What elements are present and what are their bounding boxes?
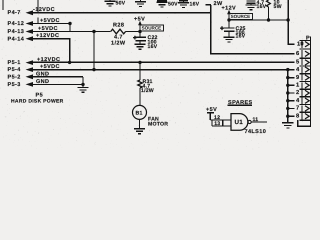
- wire stub to Vb with 2W label: [206, 4, 211, 6]
- svg-text:+5VDC: +5VDC: [38, 26, 58, 32]
- svg-text:1/2W: 1/2W: [111, 41, 126, 47]
- ground top G1: [105, 0, 116, 6]
- wire GND from P5-2: [26, 74, 84, 79]
- wire +12VDC rail P5-1 to pin 5: [26, 60, 295, 65]
- pin 8 row10: [296, 112, 309, 119]
- pin 4 row8: [296, 98, 309, 104]
- wire spares input 13: [212, 120, 231, 126]
- svg-text:+12V: +12V: [222, 5, 237, 11]
- svg-text:7: 7: [296, 106, 299, 112]
- wire stub top-left edge: [2, 0, 4, 10]
- junction dot fan branch on +12 rail: [138, 61, 141, 64]
- svg-text:+12VDC: +12VDC: [37, 57, 60, 63]
- pin 7 row9: [296, 105, 309, 111]
- svg-text:P4-14: P4-14: [8, 36, 25, 42]
- svg-text:P5-2: P5-2: [8, 74, 21, 80]
- wire +12VDC line from P4-14, corner down to line5: [26, 36, 72, 64]
- svg-text:74LS10: 74LS10: [245, 129, 267, 135]
- svg-text:50V: 50V: [168, 2, 178, 8]
- svg-text:R28: R28: [113, 22, 124, 28]
- capacitor C25 100 16V: [220, 26, 234, 37]
- gate U1 74LS10: [231, 114, 251, 131]
- wire GND from P5-3 joining P5-2: [26, 77, 85, 87]
- svg-text:2: 2: [296, 89, 299, 96]
- junction dot line3 at +5V stem: [138, 30, 141, 33]
- power arrow +12V source: [227, 10, 231, 28]
- node box SOURCE (+12V): [229, 14, 253, 20]
- wire +5VDC line from P4-13 to R28: [26, 29, 111, 34]
- svg-text:13: 13: [214, 121, 220, 127]
- svg-text:P4-7: P4-7: [8, 10, 21, 16]
- svg-text:50V: 50V: [116, 0, 126, 6]
- svg-text:MOTOR: MOTOR: [148, 121, 168, 127]
- svg-text:U1: U1: [235, 119, 244, 126]
- node box SOURCE (+5V): [140, 25, 164, 31]
- ground C25: [224, 37, 235, 42]
- wire +5VDC rail P5-4 to pin 4: [26, 67, 295, 72]
- svg-text:P5-4: P5-4: [8, 67, 22, 73]
- ground top G2: [135, 0, 146, 6]
- svg-text:GND: GND: [36, 79, 49, 85]
- pin 4 row4: [296, 67, 309, 73]
- wire Vc vertical at x=288 from top to pin10: [286, 0, 294, 44]
- wire Vb down to pin 6: [211, 5, 294, 54]
- svg-text:+5V: +5V: [134, 16, 145, 22]
- junction dot line3/V2: [92, 30, 95, 33]
- resistor 10 5W top-right: [267, 0, 271, 22]
- svg-text:P4-12: P4-12: [8, 21, 25, 27]
- pin 2 row7: [296, 89, 309, 96]
- svg-text:5W: 5W: [274, 4, 282, 10]
- svg-text:16V: 16V: [190, 2, 200, 8]
- svg-text:+5V: +5V: [206, 107, 217, 113]
- ground C22: [135, 44, 146, 49]
- svg-text:SOURCE: SOURCE: [231, 14, 251, 19]
- svg-text:GND: GND: [36, 71, 49, 77]
- svg-text:+5VDC: +5VDC: [40, 18, 60, 24]
- pin 5 row3: [296, 59, 309, 66]
- junction dot H2 at +12V stem: [227, 18, 230, 21]
- svg-text:SOURCE: SOURCE: [142, 26, 162, 31]
- pin 9 row5: [296, 74, 309, 81]
- wire spares input 12: [210, 119, 231, 121]
- capacitor top-right 16V: [246, 1, 257, 10]
- capacitor+ground top G3: [157, 1, 168, 7]
- svg-text:16V: 16V: [257, 4, 267, 10]
- wire vertical +5V feed crossing line1 to P4-12: [37, 0, 39, 24]
- resistor R31 4.7 1/2W: [138, 80, 142, 105]
- svg-text:P5-3: P5-3: [8, 82, 21, 88]
- ground bus symbol: [282, 123, 294, 128]
- svg-text:+12VDC: +12VDC: [36, 33, 59, 39]
- pin 6 row2: [296, 50, 309, 58]
- connector body right edge: [309, 37, 311, 127]
- svg-text:11: 11: [253, 117, 259, 123]
- ground bus at connector: [286, 68, 289, 123]
- resistor R28 4.7 1/2W: [111, 29, 140, 34]
- svg-text:-12VDC: -12VDC: [33, 7, 55, 13]
- svg-text:1/2W: 1/2W: [141, 88, 154, 94]
- svg-text:+5VDC: +5VDC: [40, 64, 60, 70]
- svg-text:B1: B1: [136, 110, 143, 116]
- wire fan to ground: [139, 119, 141, 128]
- wire fan branch down: [139, 62, 141, 80]
- capacitor+ground top G4: [178, 1, 189, 8]
- wire H2 +12V source to Vc: [229, 19, 288, 21]
- wire bus branches to pins 9,1,2,4,7,8: [288, 78, 295, 117]
- svg-text:P4-13: P4-13: [8, 29, 25, 35]
- wire -12VDC line from P4-7: [26, 10, 211, 15]
- svg-text:P5-1: P5-1: [8, 60, 21, 66]
- wire V2 +5V down to P5-4 line: [93, 32, 95, 70]
- connector cell borders: [299, 40, 310, 120]
- svg-text:16V: 16V: [148, 44, 158, 50]
- svg-text:10: 10: [297, 40, 304, 47]
- power arrow +5V source: [138, 21, 142, 37]
- wire +5VDC line from P4-12, corner down to line3: [26, 21, 72, 31]
- ground P5: [78, 88, 89, 93]
- wire gate output: [251, 121, 267, 123]
- svg-text:HARD DISK POWER: HARD DISK POWER: [11, 99, 64, 105]
- connector bottom bracket: [298, 120, 311, 126]
- fan motor B1: [133, 105, 147, 119]
- power arrow +5V spares (T-bar): [207, 113, 214, 120]
- pin 10 row1: [297, 40, 309, 48]
- ground fan: [134, 129, 145, 134]
- svg-text:16V: 16V: [236, 34, 246, 40]
- pin 1 row6: [296, 82, 309, 88]
- label SPARES: [228, 100, 253, 106]
- svg-text:12: 12: [214, 115, 220, 121]
- capacitor C22 100 16V: [133, 36, 146, 45]
